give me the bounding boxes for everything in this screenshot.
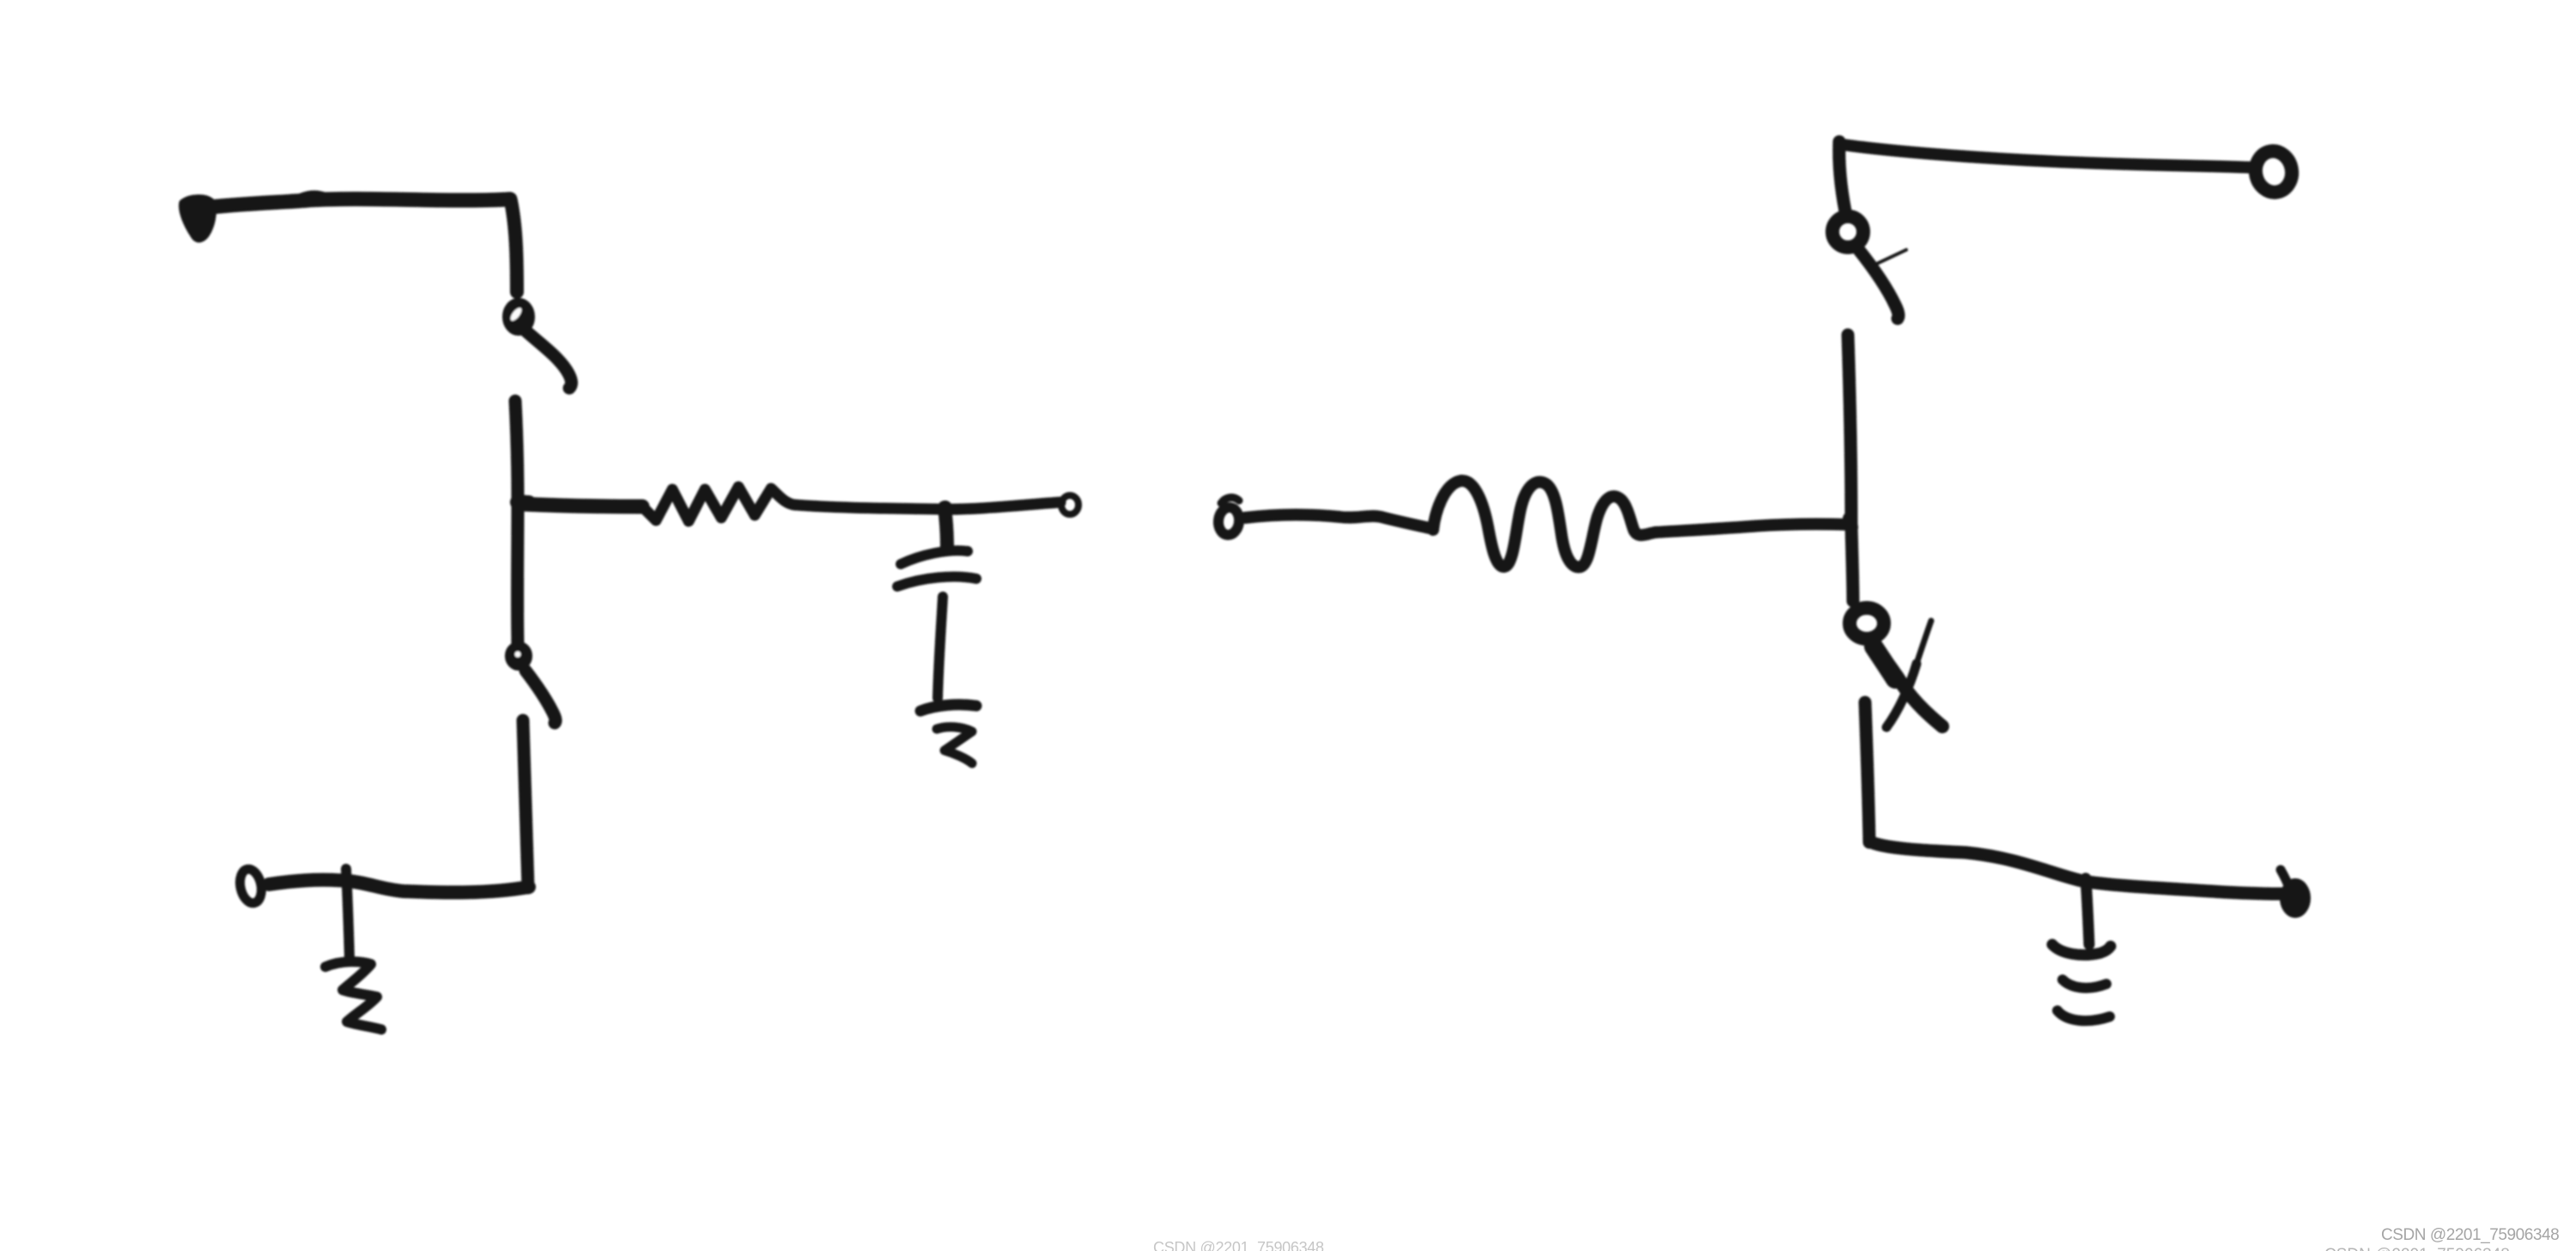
- switch S4 blade: [1873, 645, 1942, 726]
- wire bottom-left horizontal: [269, 880, 529, 893]
- switch S4 pivot circle: [1850, 608, 1884, 639]
- input terminal T4 circle (right half): [1217, 507, 1240, 536]
- node junction left: [518, 502, 529, 503]
- switch S4 cross stroke (X) thick bottom: [1886, 664, 1917, 727]
- ground GND2 squiggle: [325, 962, 381, 1029]
- wire right vertical (upper): [1848, 335, 1853, 601]
- wire input to resistor R2: [1245, 514, 1433, 529]
- wire right vertical lower: [1865, 702, 1869, 842]
- node junction blob: [939, 501, 952, 514]
- input terminal T3 circle: [237, 867, 264, 905]
- ground stub bottom-left: [346, 869, 349, 958]
- output terminal T2 circle: [1061, 495, 1078, 514]
- switch S3 stub: [1839, 142, 1845, 211]
- ground GND1 bar: [920, 705, 976, 711]
- switch S2 pivot circle: [507, 644, 530, 668]
- wire resistor to node: [795, 505, 942, 509]
- switch S1 pivot circle: [505, 301, 532, 333]
- ground GND3 arc2: [2063, 980, 2106, 988]
- wire capacitor to ground: [938, 597, 943, 698]
- wire corner vertical: [511, 201, 517, 292]
- resistor R2 loopy scribble: [1433, 481, 1656, 568]
- output terminal T5 ring: [2252, 149, 2295, 196]
- ground GND3 arc1: [2052, 944, 2111, 955]
- ground GND3 arc3: [2057, 1011, 2110, 1021]
- wire to resistor R1: [520, 504, 642, 507]
- wire left vertical (upper): [515, 401, 518, 645]
- switch S3 blade: [1858, 249, 1899, 319]
- terminal T6 blob: [2281, 880, 2309, 916]
- resistor R1 zigzag: [642, 487, 795, 521]
- capacitor C1 top plate: [901, 550, 968, 564]
- svg-text:CSDN @2201_75906348: CSDN @2201_75906348: [2381, 1226, 2559, 1244]
- wire left vertical lower: [523, 720, 528, 888]
- wire bump overlap: [290, 195, 325, 203]
- ground stub bottom-right: [2086, 878, 2089, 944]
- switch S3 pivot circle: [1832, 216, 1863, 247]
- wire node to output terminal: [942, 502, 1060, 509]
- svg-text:CSDN @2201_75906348: CSDN @2201_75906348: [1153, 1239, 1324, 1251]
- terminal T6 tail: [2281, 870, 2289, 888]
- wire bottom-right horizontal: [1869, 841, 2282, 894]
- terminal T1 (top-left filled blob): [182, 197, 214, 240]
- wire resistor R2 to node: [1656, 524, 1850, 532]
- ground GND1 Z squiggle: [937, 727, 972, 763]
- wire top-right horizontal: [1840, 144, 2251, 167]
- node junction right: [1850, 519, 1851, 527]
- capacitor C1 bottom plate: [897, 577, 976, 586]
- svg-text:CSDN @2201_75906348: CSDN @2201_75906348: [2324, 1246, 2510, 1251]
- switch S3 thin tick: [1877, 250, 1906, 264]
- capacitor C1 stub: [945, 507, 947, 549]
- input terminal T4 top hook: [1221, 497, 1239, 503]
- switch S1 blade: [526, 331, 572, 388]
- switch S4 cross stroke (X) thin top: [1917, 621, 1931, 664]
- switch S4 blade thick blob: [1874, 647, 1895, 679]
- switch S2 blade: [526, 671, 556, 723]
- wire top-left horizontal: [196, 199, 510, 209]
